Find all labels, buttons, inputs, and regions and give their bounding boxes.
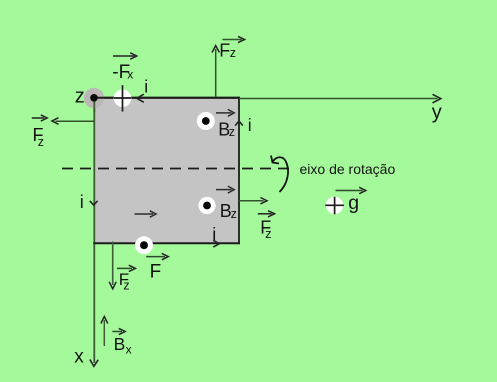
svg-text:i: i xyxy=(212,224,216,244)
svg-text:x: x xyxy=(127,67,133,81)
svg-text:z: z xyxy=(265,227,271,241)
svg-text:x: x xyxy=(74,346,84,367)
svg-text:z: z xyxy=(231,207,237,221)
svg-text:i: i xyxy=(80,192,84,212)
svg-text:g: g xyxy=(348,192,359,214)
svg-text:z: z xyxy=(229,125,235,139)
svg-text:i: i xyxy=(248,115,252,135)
svg-text:i: i xyxy=(144,77,148,97)
svg-text:eixo de rotação: eixo de rotação xyxy=(300,161,396,177)
svg-text:z: z xyxy=(75,86,85,108)
svg-text:F: F xyxy=(219,40,230,60)
svg-text:y: y xyxy=(432,101,442,123)
svg-text:z: z xyxy=(38,135,44,149)
svg-text:F: F xyxy=(150,261,162,282)
svg-text:B: B xyxy=(114,334,126,354)
svg-text:z: z xyxy=(230,46,236,60)
svg-text:z: z xyxy=(123,279,129,293)
svg-text:x: x xyxy=(126,343,132,357)
